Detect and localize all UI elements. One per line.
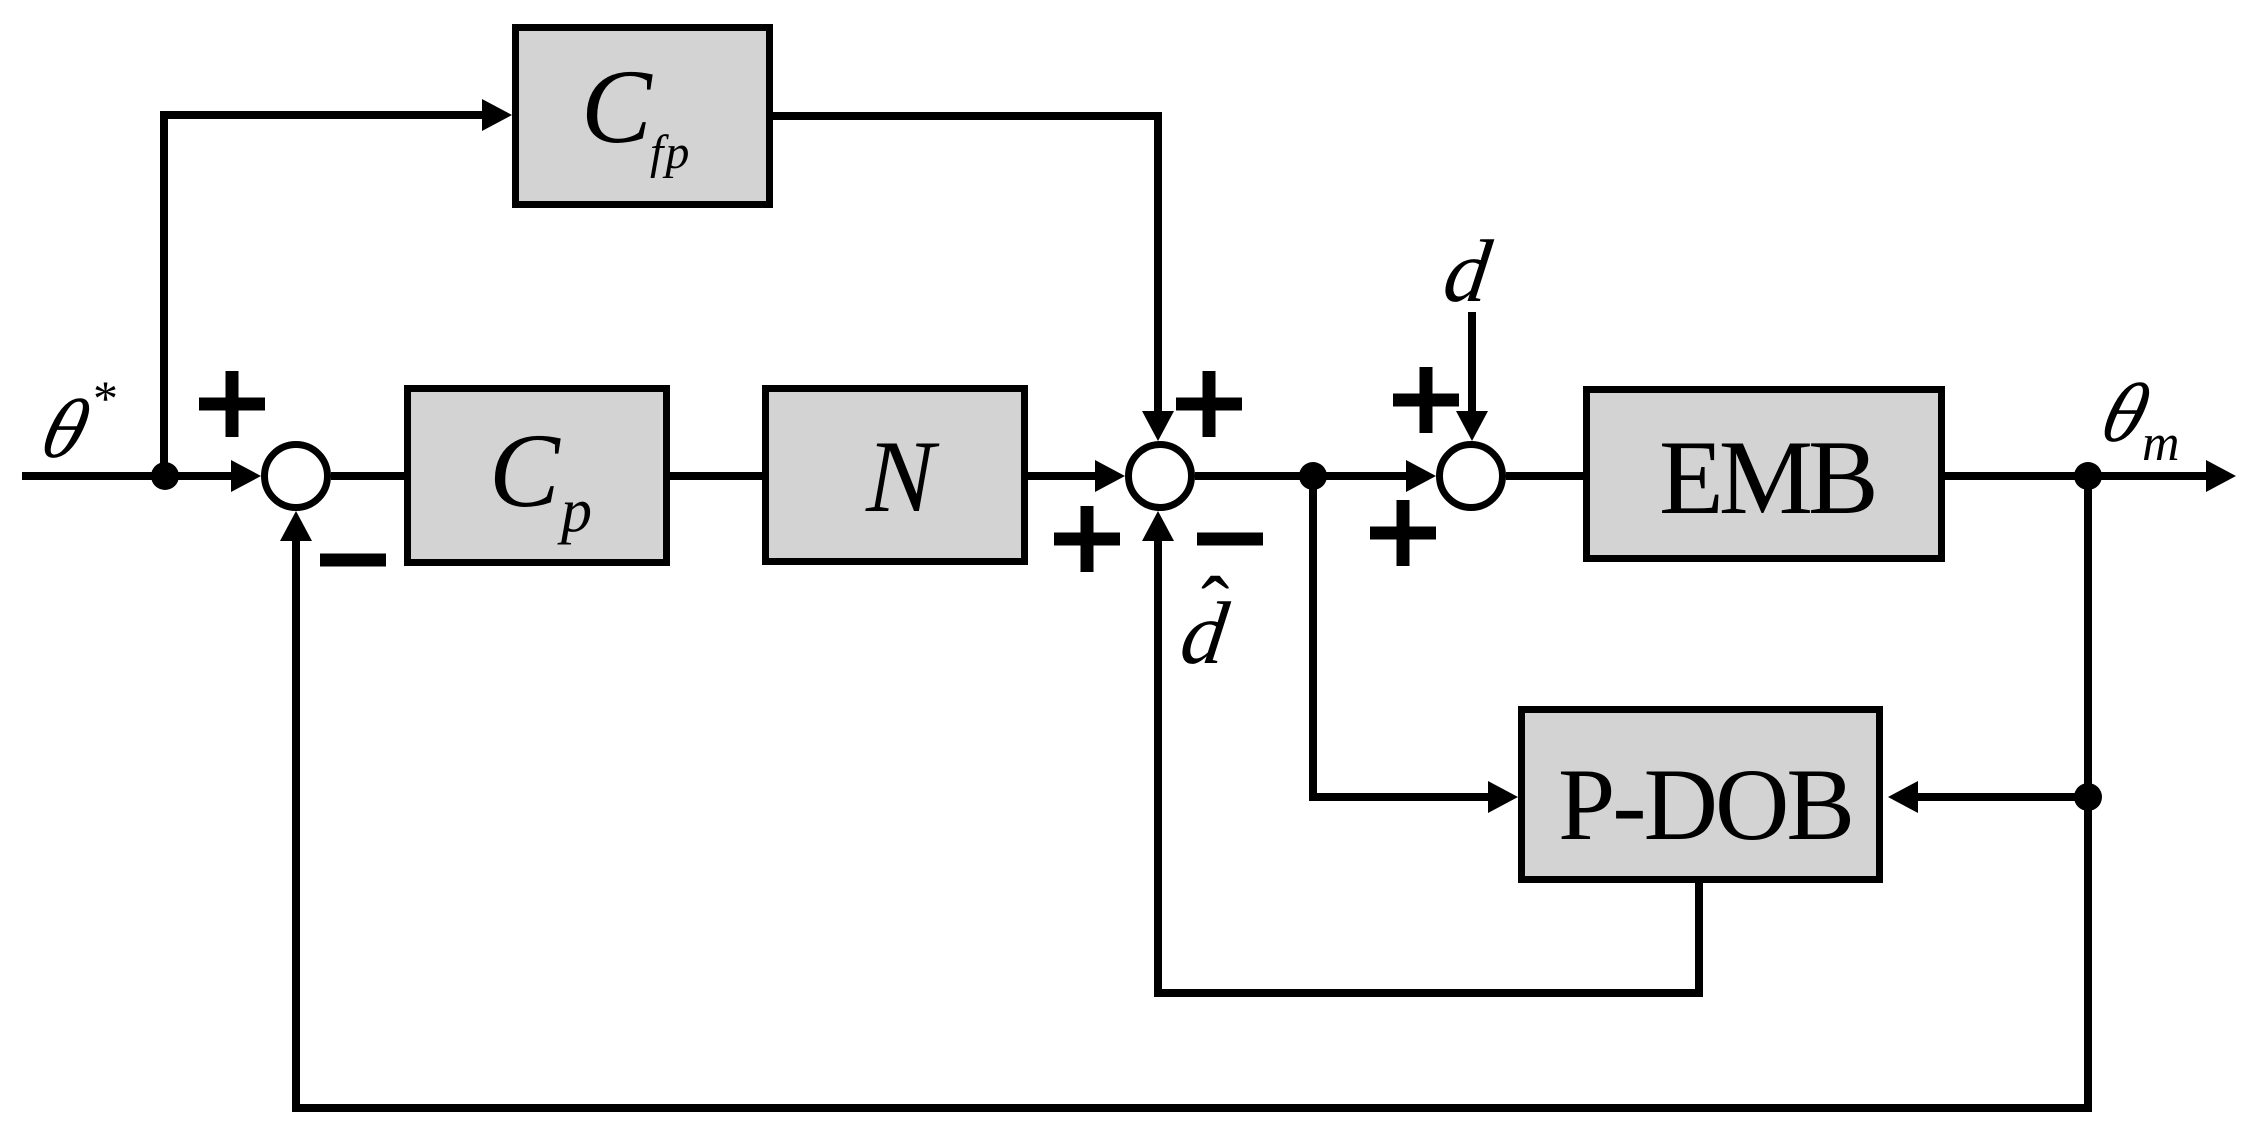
block N xyxy=(766,389,1025,562)
block EMB xyxy=(1587,390,1942,559)
svg-text:C: C xyxy=(489,412,561,529)
svg-text:m: m xyxy=(2142,415,2180,472)
wire branch up to Cfp xyxy=(164,99,512,476)
svg-text:p: p xyxy=(557,477,592,545)
svg-text:P-DOB: P-DOB xyxy=(1558,748,1852,862)
block Cp xyxy=(408,389,667,563)
arrowhead into sum1 xyxy=(231,460,261,492)
minus sign sum1 bottom xyxy=(320,554,386,567)
plus sign sum2 top-right xyxy=(1176,371,1242,437)
wire branch down to P-DOB left input xyxy=(1313,476,1518,813)
summing junction sum1 xyxy=(265,445,328,508)
summing junction sum2 xyxy=(1129,445,1192,508)
wire Cfp output to sum2 top xyxy=(773,116,1174,441)
svg-text:*: * xyxy=(93,370,118,426)
wire P-DOB output loop to sum2 bottom xyxy=(1142,511,1699,993)
svg-text:EMB: EMB xyxy=(1659,419,1874,536)
plus sign sum2 bottom-left xyxy=(1054,506,1120,572)
label d disturbance xyxy=(1438,222,1497,321)
minus sign sum2 bottom-right xyxy=(1197,533,1263,546)
label theta* xyxy=(32,370,118,476)
label theta_m xyxy=(2092,367,2180,472)
plus sign sum1 top xyxy=(199,371,265,437)
svg-text:N: N xyxy=(865,420,940,534)
plus sign sum3 bottom-left xyxy=(1370,500,1436,566)
svg-text:fp: fp xyxy=(650,126,691,179)
wire EMB output xyxy=(1945,460,2236,492)
wire main input xyxy=(22,472,240,480)
node branch to P-DOB xyxy=(1299,462,1327,490)
plus sign sum3 top-left xyxy=(1393,367,1459,433)
wire sum3 to EMB xyxy=(1506,472,1583,480)
wire Cp to N xyxy=(670,472,762,480)
block Cfp xyxy=(516,28,770,205)
block P-DOB xyxy=(1522,710,1880,880)
summing junction sum3 xyxy=(1440,445,1503,508)
node theta_m xyxy=(2074,462,2102,490)
label d-hat xyxy=(1175,560,1234,683)
wire sum2 to sum3 xyxy=(1195,460,1436,492)
svg-text:ˆ: ˆ xyxy=(1201,560,1229,654)
svg-text:C: C xyxy=(581,48,653,165)
node feedback to P-DOB right xyxy=(2074,783,2102,811)
node branch theta* xyxy=(151,462,179,490)
wire d into sum3 xyxy=(1456,312,1488,441)
wire N to sum2 xyxy=(1028,460,1125,492)
wire sum1 to Cp xyxy=(331,472,404,480)
wire feedback into P-DOB right input xyxy=(1888,781,2088,813)
wire main feedback theta_m to sum1 bottom xyxy=(280,476,2088,1108)
